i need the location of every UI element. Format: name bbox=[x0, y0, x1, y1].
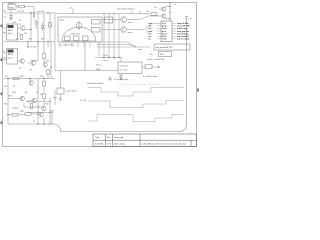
wire top bus bbox=[4, 12, 57, 14]
svg-text:4k7: 4k7 bbox=[13, 22, 16, 24]
box U5 bbox=[105, 17, 113, 23]
svg-text:Q3: Q3 bbox=[30, 69, 32, 71]
wire regulator out bbox=[16, 7, 34, 14]
svg-text:C2: C2 bbox=[19, 20, 21, 22]
capacitor C3 bbox=[108, 77, 111, 82]
svg-text:R1 10k: R1 10k bbox=[18, 11, 24, 13]
node r2 bbox=[169, 12, 170, 13]
svg-text:switch: switch bbox=[128, 21, 133, 24]
waveform W1 bbox=[88, 88, 184, 97]
transistor Q11 bbox=[157, 14, 170, 19]
wire bus low bbox=[4, 78, 56, 80]
wire center drops bbox=[55, 42, 118, 71]
node n3 bbox=[27, 41, 28, 42]
svg-text:out: out bbox=[149, 22, 153, 25]
svg-text:C1: C1 bbox=[4, 17, 6, 19]
buffer U7 bbox=[121, 27, 127, 33]
wire U3 stubs bbox=[4, 53, 7, 58]
resistor RB bbox=[74, 36, 80, 41]
svg-text:R23: R23 bbox=[8, 95, 11, 97]
resistor R21 bbox=[145, 65, 152, 69]
resistor R17 bbox=[12, 113, 18, 116]
diode D3 loop end bbox=[185, 17, 188, 21]
node n11 bbox=[7, 114, 8, 115]
wire pins down bbox=[60, 42, 90, 47]
node n10 bbox=[37, 106, 38, 107]
diode D2 bbox=[41, 23, 44, 32]
svg-text:AMP2: AMP2 bbox=[8, 53, 14, 56]
svg-text:Vref: Vref bbox=[3, 59, 7, 61]
node n10c bbox=[49, 112, 50, 113]
wire riser x38 bbox=[28, 86, 55, 124]
wire bbox=[28, 42, 48, 47]
node p1 bbox=[103, 57, 104, 58]
current source CS1 bbox=[76, 23, 82, 29]
ruler tick C bbox=[1, 93, 3, 96]
svg-text:Vout Pulse Switch: Vout Pulse Switch bbox=[117, 8, 135, 11]
svg-text:2 to mSign time: 2 to mSign time bbox=[114, 78, 129, 81]
svg-text:6 thr: 6 thr bbox=[162, 35, 167, 38]
shunt box RS1 bbox=[57, 88, 64, 94]
svg-text:drive out p: drive out p bbox=[177, 27, 188, 30]
svg-text:R22: R22 bbox=[45, 104, 48, 106]
svg-text:R8: R8 bbox=[47, 61, 49, 63]
IC U8 timer bbox=[118, 62, 142, 74]
dashed timing line bbox=[118, 84, 160, 86]
wire bbox=[4, 28, 32, 33]
svg-text:Q2: Q2 bbox=[19, 67, 21, 69]
wire vcc tick bbox=[57, 9, 150, 14]
svg-text:latch: latch bbox=[139, 48, 143, 51]
waveform W2 bbox=[88, 101, 184, 108]
svg-text:set: set bbox=[149, 25, 152, 28]
op-amp U2 box bbox=[7, 24, 18, 40]
svg-text:com gnd ret: com gnd ret bbox=[177, 30, 189, 33]
wire bbox=[8, 79, 44, 100]
svg-text:Vcc 3v3: Vcc 3v3 bbox=[37, 11, 45, 13]
title block bbox=[93, 134, 197, 147]
svg-text:vref 2v5 bg: vref 2v5 bg bbox=[177, 32, 189, 35]
node n10d bbox=[37, 123, 38, 124]
svg-text:Vb2: Vb2 bbox=[4, 103, 7, 105]
transistor Q5 bbox=[29, 79, 33, 86]
ruler tick A bbox=[1, 25, 3, 28]
resistor R20 bbox=[151, 13, 157, 16]
resistor R24 bbox=[30, 104, 33, 109]
ground bbox=[120, 79, 123, 80]
wire bbox=[31, 42, 51, 79]
resistor RC bbox=[83, 36, 89, 41]
resistor R3 bbox=[20, 35, 23, 40]
wire bbox=[8, 99, 44, 108]
svg-text:loop powered 3.3v: loop powered 3.3v bbox=[156, 46, 174, 49]
svg-text:LM317L: LM317L bbox=[8, 3, 16, 5]
resistor RA bbox=[65, 36, 71, 41]
resistor R9 bbox=[47, 70, 50, 75]
resistor R2b bbox=[49, 23, 52, 28]
transistor Q10 bbox=[159, 7, 170, 12]
svg-text:7 dis: 7 dis bbox=[162, 39, 168, 41]
node p4 bbox=[118, 57, 119, 58]
svg-text:Drawn by: Drawn by bbox=[114, 136, 124, 139]
wire cap drop bbox=[10, 10, 12, 16]
wire rail mid bbox=[26, 101, 50, 103]
node n5 bbox=[47, 41, 48, 42]
wire bbox=[102, 11, 157, 20]
svg-text:R7 10k: R7 10k bbox=[30, 47, 36, 49]
wire bbox=[60, 71, 62, 100]
loop wire bbox=[8, 21, 187, 132]
svg-text:in-: in- bbox=[149, 39, 152, 41]
svg-text:loop+ 4-20o: loop+ 4-20o bbox=[177, 22, 189, 25]
svg-text:Q9: Q9 bbox=[40, 94, 42, 96]
resistor RE bbox=[92, 28, 101, 33]
svg-text:Vout/Pulse Switch: Vout/Pulse Switch bbox=[87, 82, 104, 85]
node n2 bbox=[47, 12, 48, 13]
transistor Q2 bbox=[18, 59, 25, 64]
node n1 bbox=[33, 12, 34, 13]
node p5c bbox=[108, 19, 109, 20]
node n10e bbox=[49, 123, 50, 124]
wire bbox=[102, 23, 157, 33]
node n10b bbox=[37, 112, 38, 113]
voltage regulator U1 bbox=[8, 4, 16, 9]
IC U4 main block bbox=[58, 17, 102, 42]
svg-text:rst: rst bbox=[149, 27, 152, 30]
svg-text:4-20 mA loop ctrl DC driver sc: 4-20 mA loop ctrl DC driver schematic fu… bbox=[142, 143, 188, 146]
svg-text:Difference: Difference bbox=[71, 33, 81, 35]
svg-text:1 2 3 4: 1 2 3 4 bbox=[103, 55, 109, 57]
svg-text:3 out: 3 out bbox=[162, 27, 167, 30]
buffer U6 bbox=[121, 17, 127, 23]
node p6 bbox=[158, 66, 159, 67]
node n12 bbox=[43, 123, 44, 124]
svg-text:a b c d: a b c d bbox=[103, 60, 109, 62]
wire gate drops bbox=[95, 14, 122, 63]
svg-text:2 to 10ms: 2 to 10ms bbox=[120, 65, 129, 68]
IC U9 connector bbox=[161, 21, 172, 42]
svg-text:switch: switch bbox=[128, 31, 133, 34]
svg-text:one shot: one shot bbox=[120, 69, 128, 72]
svg-text:XTR: XTR bbox=[60, 20, 64, 22]
transistor Q12 bbox=[42, 106, 46, 111]
svg-text:4-20mA: 4-20mA bbox=[95, 143, 103, 146]
capacitor C2 bbox=[119, 74, 122, 79]
node n8 bbox=[29, 78, 30, 79]
transistor Q7 bbox=[29, 98, 36, 103]
op-amp U3 box bbox=[7, 49, 18, 65]
svg-text:ref: ref bbox=[149, 32, 152, 35]
svg-text:in: in bbox=[3, 32, 4, 34]
node n14 bbox=[49, 101, 50, 102]
wire verticals upper-left bbox=[31, 13, 55, 42]
wire rail bbox=[169, 3, 171, 21]
resistor R14 bbox=[43, 81, 46, 86]
node p5d bbox=[118, 29, 119, 30]
node n15 bbox=[7, 78, 8, 79]
transistor Q1 bbox=[21, 26, 25, 31]
ground bbox=[59, 99, 62, 101]
transistor Q4 bbox=[43, 62, 47, 67]
node r1 bbox=[169, 6, 170, 7]
svg-text:gain 2x: gain 2x bbox=[8, 57, 14, 59]
svg-text:2 trg: 2 trg bbox=[162, 25, 167, 28]
node p5b bbox=[113, 13, 114, 14]
svg-text:Q6: Q6 bbox=[25, 92, 27, 94]
pin stubs right bbox=[172, 23, 176, 39]
ground bbox=[10, 19, 13, 21]
svg-text:Vin: Vin bbox=[3, 11, 6, 13]
capacitor C5 bbox=[51, 111, 54, 116]
svg-text:SCL o: SCL o bbox=[96, 65, 101, 67]
svg-text:Q5: Q5 bbox=[13, 85, 15, 87]
resistor R13 bbox=[13, 77, 19, 80]
node n2b bbox=[30, 12, 31, 13]
diode D1 bbox=[33, 15, 35, 18]
svg-text:= (7k Ohm): = (7k Ohm) bbox=[66, 91, 76, 93]
node q1c bbox=[30, 29, 31, 30]
box note2 bbox=[159, 52, 172, 57]
svg-text:2 to mSec timer: 2 to mSec timer bbox=[143, 75, 158, 78]
capacitor C1 bbox=[9, 15, 12, 18]
svg-text:diff in: diff in bbox=[8, 33, 12, 35]
node r3 bbox=[169, 18, 170, 19]
resistor R15 bbox=[43, 94, 46, 99]
bus ribbon right bbox=[97, 42, 150, 47]
waveform W3 bbox=[88, 115, 184, 122]
svg-text:R17 1k: R17 1k bbox=[13, 108, 19, 110]
svg-text:AMP1: AMP1 bbox=[8, 29, 14, 32]
svg-text:SDA i: SDA i bbox=[96, 68, 101, 71]
ruler tick B bbox=[1, 59, 3, 62]
ruler tick D bbox=[1, 122, 3, 125]
box note1 bbox=[154, 44, 190, 50]
svg-text:1k0: 1k0 bbox=[4, 86, 7, 88]
svg-text:4 to 20: 4 to 20 bbox=[80, 99, 87, 102]
wire bus mid bbox=[4, 41, 56, 43]
svg-text:Chart rev 04 05 06: Chart rev 04 05 06 bbox=[147, 58, 165, 61]
node n13 bbox=[27, 101, 28, 102]
ruler tick right bbox=[197, 89, 199, 92]
transistor Q6 bbox=[17, 96, 24, 101]
resistor R18 bbox=[25, 113, 31, 116]
node p2 bbox=[108, 57, 109, 58]
label vcc right bbox=[169, 3, 172, 6]
svg-text:4 rst: 4 rst bbox=[162, 30, 167, 33]
transistor Q9 bbox=[36, 112, 43, 117]
transistor Q3 bbox=[28, 61, 35, 66]
resistor RD bbox=[92, 20, 101, 25]
capacitor C4 bbox=[35, 23, 38, 25]
node n6 bbox=[27, 46, 28, 47]
pin stubs left bbox=[157, 23, 161, 39]
node n9 bbox=[43, 78, 44, 79]
svg-text:Rs: Rs bbox=[150, 54, 152, 56]
svg-text:40m: 40m bbox=[54, 98, 58, 100]
svg-text:Vreg: Vreg bbox=[9, 6, 14, 9]
node n4 bbox=[37, 41, 38, 42]
node n7 bbox=[50, 66, 51, 67]
node p5 bbox=[103, 13, 104, 14]
svg-text:aux in mux1: aux in mux1 bbox=[177, 39, 190, 41]
resistor R1 bbox=[19, 5, 25, 8]
svg-text:C5: C5 bbox=[33, 121, 35, 123]
wire jog c4 bbox=[36, 20, 38, 28]
svg-text:Q1: Q1 bbox=[19, 24, 21, 26]
wire bbox=[8, 100, 52, 125]
svg-text:date stamp: date stamp bbox=[114, 143, 126, 146]
wire bbox=[142, 66, 160, 68]
resistor R8 bbox=[43, 54, 46, 59]
op-amp dome bbox=[62, 27, 96, 41]
node p3 bbox=[113, 57, 114, 58]
